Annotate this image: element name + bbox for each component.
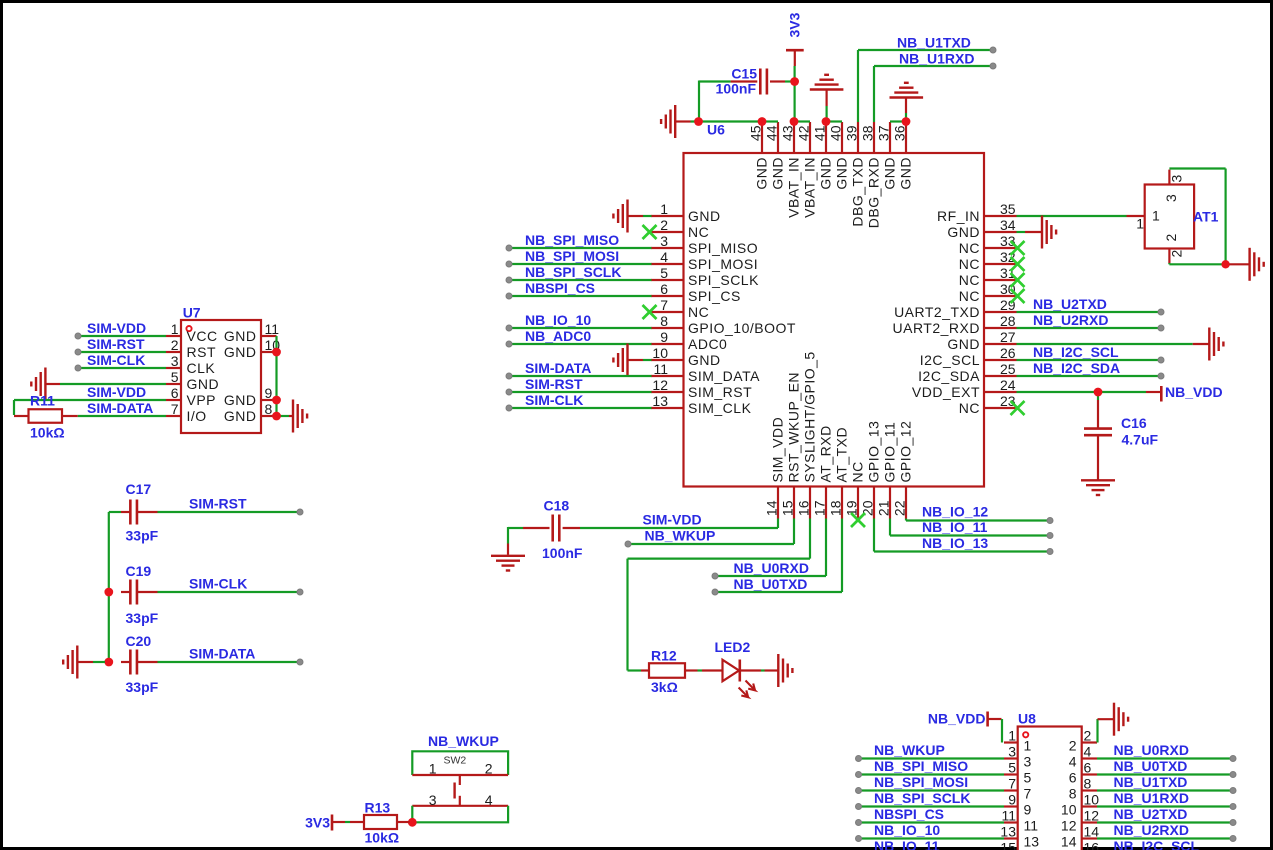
endpoint SIM-RST C17	[297, 509, 303, 515]
svg-text:VDD_EXT: VDD_EXT	[912, 384, 980, 400]
svg-text:GND: GND	[817, 157, 833, 190]
svg-text:NB_VDD: NB_VDD	[928, 711, 986, 727]
svg-text:7: 7	[1024, 786, 1032, 802]
svg-text:3: 3	[429, 792, 437, 808]
wire net NB_U1TXD	[858, 50, 993, 122]
svg-text:14: 14	[1084, 824, 1100, 840]
svg-text:1: 1	[1152, 208, 1160, 224]
value 100nF of C18	[542, 545, 583, 561]
wire ground to pin1	[643, 215, 652, 217]
wire net NB_WKUP to U6 pin15	[628, 519, 794, 545]
svg-text:4: 4	[660, 249, 668, 265]
svg-text:3: 3	[1169, 175, 1185, 183]
svg-text:NB_IO_12: NB_IO_12	[922, 504, 988, 520]
label R12	[651, 648, 677, 664]
svg-text:GND: GND	[224, 408, 257, 424]
svg-text:SIM-DATA: SIM-DATA	[87, 400, 153, 416]
wire U8 pin1 to NB_VDD	[1001, 719, 1003, 743]
svg-text:7: 7	[1008, 776, 1016, 792]
endpoint NB_U0TXD U8 right	[1230, 772, 1236, 778]
AT1 pin1 number outside	[1136, 216, 1144, 232]
endpoint SIM-RST U7	[75, 349, 81, 355]
wire net NB_SPI_MOSI to U8 pin 7	[859, 789, 1005, 791]
switch SW2 contacts	[412, 775, 508, 806]
svg-text:3V3: 3V3	[305, 815, 330, 831]
capacitor C18	[523, 515, 580, 542]
svg-text:R13: R13	[365, 800, 391, 816]
svg-text:R12: R12	[651, 648, 677, 664]
wire net NB_U0TXD to U8 pin 6	[1097, 773, 1233, 775]
endpoint NB_U2RXD	[1158, 325, 1164, 331]
endpoint NB_SPI_SCLK	[506, 277, 512, 283]
svg-text:1: 1	[1136, 216, 1144, 232]
wire R12 to LED2	[698, 669, 703, 671]
endpoint NB_IO_11	[1047, 533, 1053, 539]
svg-text:26: 26	[1000, 345, 1016, 361]
svg-text:NB_I2C_SCL: NB_I2C_SCL	[1114, 838, 1200, 850]
no-connect cross pin 2	[643, 225, 657, 239]
wire pin43 to pin42	[794, 120, 810, 122]
ground at U7 pin8	[289, 400, 307, 433]
wire ground to pin10	[643, 359, 652, 361]
wire net NB_WKUP to U8 pin 3	[859, 757, 1005, 759]
U6 left pin names	[688, 208, 796, 416]
svg-text:NC: NC	[959, 256, 980, 272]
endpoint NB_U1TXD	[990, 47, 996, 53]
svg-text:NB_U0RXD: NB_U0RXD	[1114, 742, 1189, 758]
svg-text:1: 1	[660, 201, 668, 217]
junction dot C19 bus	[104, 588, 113, 597]
label SIM-RST U7 pin2	[87, 336, 145, 352]
svg-text:NC: NC	[959, 272, 980, 288]
svg-text:9: 9	[265, 385, 273, 401]
wire net NB_SPI_SCLK to U8 pin 9	[859, 805, 1005, 807]
svg-text:SW2: SW2	[444, 755, 467, 767]
label NB_IO_10	[525, 312, 591, 328]
svg-text:SPI_MOSI: SPI_MOSI	[688, 256, 758, 272]
endpoint SIM-CLK C19	[297, 589, 303, 595]
svg-text:33: 33	[1000, 233, 1016, 249]
ground at U6 pin 1	[613, 200, 643, 233]
svg-text:GND: GND	[688, 352, 721, 368]
svg-text:3: 3	[1163, 194, 1179, 202]
svg-text:SIM-CLK: SIM-CLK	[189, 576, 247, 592]
svg-text:7: 7	[171, 401, 179, 417]
endpoint SIM-RST pin12	[506, 389, 512, 395]
ground below C18	[491, 556, 525, 571]
wire AT1 pin2 to ground	[1169, 263, 1229, 264]
svg-text:C20: C20	[126, 633, 152, 649]
label NB_SPI_MOSI U8	[874, 774, 968, 790]
svg-text:GND: GND	[769, 157, 785, 190]
svg-text:1: 1	[1024, 738, 1032, 754]
svg-text:NB_IO_10: NB_IO_10	[525, 312, 591, 328]
svg-text:41: 41	[812, 125, 828, 141]
label NB_U2TXD	[1033, 296, 1107, 312]
wire net NB_U2RXD	[1017, 327, 1162, 329]
svg-text:3: 3	[660, 233, 668, 249]
endpoint NB_SPI_SCLK U8	[856, 804, 862, 810]
port 3V3 at R13	[305, 815, 332, 831]
svg-text:3V3: 3V3	[787, 12, 803, 37]
svg-text:45: 45	[748, 125, 764, 141]
label R13	[365, 800, 391, 816]
U6 bottom pin names	[769, 351, 913, 482]
endpoint NB_U1RXD	[990, 63, 996, 69]
wire net NB_SPI_MISO to U8 pin 5	[859, 773, 1005, 775]
svg-text:GND: GND	[688, 208, 721, 224]
label SIM-VDD pin14	[643, 512, 702, 528]
svg-text:RST_WKUP_EN: RST_WKUP_EN	[785, 372, 801, 483]
label NB_WKUP pin15	[645, 528, 716, 544]
svg-text:6: 6	[660, 281, 668, 297]
svg-text:13: 13	[652, 393, 668, 409]
ground above pins 37/36	[890, 83, 924, 122]
svg-text:C16: C16	[1121, 415, 1147, 431]
svg-text:33pF: 33pF	[126, 610, 159, 626]
wire net NB_IO_13 to U6 pin20	[874, 519, 1050, 552]
label SIM-RST C17	[189, 496, 247, 512]
label NB_ADC0	[525, 328, 591, 344]
svg-text:NB_WKUP: NB_WKUP	[428, 733, 499, 749]
svg-text:AT_RXD: AT_RXD	[817, 425, 833, 482]
U6 right pin stubs 35-23	[984, 216, 1017, 408]
endpoint NB_U2RXD U8 right	[1230, 836, 1236, 842]
svg-text:20: 20	[860, 500, 876, 516]
label U8	[1018, 711, 1036, 727]
svg-text:GND: GND	[224, 344, 257, 360]
svg-text:100nF: 100nF	[542, 545, 583, 561]
svg-text:U6: U6	[707, 122, 725, 138]
svg-text:GPIO_12: GPIO_12	[897, 421, 913, 483]
wire net NBSPI_CS	[509, 295, 652, 297]
no-connect cross pin 23	[1011, 401, 1025, 415]
label C20	[126, 633, 152, 649]
svg-text:GPIO_13: GPIO_13	[865, 421, 881, 483]
svg-text:34: 34	[1000, 217, 1016, 233]
ground at AT1	[1229, 248, 1263, 281]
AT1 pin2 number outside	[1169, 250, 1185, 258]
svg-text:1: 1	[171, 321, 179, 337]
svg-text:33pF: 33pF	[126, 679, 159, 695]
resistor R11	[14, 409, 78, 423]
svg-text:11: 11	[265, 321, 280, 337]
wire RF_IN to AT1	[1017, 215, 1127, 217]
svg-text:RST: RST	[187, 344, 217, 360]
svg-text:NB_IO_11: NB_IO_11	[874, 838, 940, 850]
svg-text:15: 15	[780, 500, 796, 516]
wire LED2 to ground	[761, 669, 765, 671]
wire net NB_IO_10	[509, 327, 652, 329]
wire net NB_U0TXD to U6 pin18	[715, 519, 842, 593]
value 33pF of C17	[126, 528, 159, 544]
AT1 pin 3 stub	[1168, 170, 1170, 185]
svg-text:2: 2	[1069, 738, 1077, 754]
capacitor C15	[731, 69, 785, 95]
LED2 emission arrows	[739, 681, 755, 698]
AT1 pin 1 stub	[1127, 215, 1145, 217]
svg-text:NB_U1RXD: NB_U1RXD	[1114, 790, 1189, 806]
svg-text:SIM-VDD: SIM-VDD	[87, 384, 146, 400]
svg-text:42: 42	[796, 125, 812, 141]
wire U7 right GND bus	[277, 336, 290, 416]
wire net NB_I2C_SDA	[1017, 375, 1162, 377]
wire net SIM-CLK to pin 13	[509, 407, 652, 409]
svg-text:25: 25	[1000, 361, 1016, 377]
no-connect cross pin 19	[851, 513, 865, 527]
label NB_IO_11 U8	[874, 838, 940, 850]
svg-text:C15: C15	[731, 66, 757, 82]
svg-text:NB_I2C_SDA: NB_I2C_SDA	[1033, 360, 1120, 376]
label NBSPI_CS U8	[874, 806, 944, 822]
wire pin41 to pin40	[826, 120, 842, 122]
U8 left pin names inside	[1024, 738, 1040, 850]
svg-text:NB_WKUP: NB_WKUP	[874, 742, 945, 758]
label NBSPI_CS	[525, 280, 595, 296]
svg-text:U8: U8	[1018, 711, 1036, 727]
endpoint NB_SPI_MISO U8	[856, 772, 862, 778]
svg-text:VBAT_IN: VBAT_IN	[785, 157, 801, 218]
svg-text:2: 2	[171, 337, 179, 353]
wire U6 pin16 to R12	[628, 519, 811, 671]
svg-text:5: 5	[1024, 770, 1032, 786]
svg-text:SIM_DATA: SIM_DATA	[688, 368, 760, 384]
svg-text:I/O: I/O	[187, 408, 207, 424]
AT1 pin 2 stub	[1168, 249, 1170, 264]
svg-text:SYSLIGHT/GPIO_5: SYSLIGHT/GPIO_5	[801, 351, 817, 482]
svg-text:5: 5	[660, 265, 668, 281]
svg-text:4: 4	[485, 792, 493, 808]
svg-text:3: 3	[1024, 754, 1032, 770]
wire net NB_SPI_SCLK	[509, 279, 652, 281]
svg-text:36: 36	[892, 125, 908, 141]
wire net NB_ADC0	[509, 343, 652, 345]
endpoint NB_ADC0	[506, 341, 512, 347]
label NB_I2C_SCL U8 right	[1114, 838, 1200, 850]
U7 left pin names	[187, 328, 220, 424]
svg-text:NC: NC	[849, 461, 865, 482]
svg-text:CLK: CLK	[187, 360, 216, 376]
svg-text:SIM-RST: SIM-RST	[87, 336, 145, 352]
label NB_U1RXD	[899, 51, 974, 67]
no-connect cross pin 31	[1011, 273, 1025, 287]
wire net NB_VDD from VDD_EXT	[1017, 391, 1147, 393]
endpoint NB_IO_10 U8	[856, 836, 862, 842]
svg-text:8: 8	[660, 313, 668, 329]
svg-text:14: 14	[764, 500, 780, 516]
U6 bottom pin stubs 14-22	[778, 487, 906, 519]
svg-text:5: 5	[171, 369, 179, 385]
junction dots top bus	[694, 77, 910, 126]
svg-text:GND: GND	[187, 376, 220, 392]
svg-text:43: 43	[780, 125, 796, 141]
label C16	[1121, 415, 1147, 431]
svg-text:6: 6	[171, 385, 179, 401]
endpoint SIM-DATA C20	[297, 659, 303, 665]
wire U8 pin2 to ground	[1096, 719, 1098, 743]
AT1 pin3 name inside	[1163, 194, 1179, 202]
svg-text:NB_IO_10: NB_IO_10	[874, 822, 940, 838]
no-connect cross pin 33	[1011, 241, 1025, 255]
svg-text:44: 44	[764, 125, 780, 141]
label LED2	[715, 639, 751, 655]
svg-text:NC: NC	[959, 240, 980, 256]
label NB_SPI_SCLK	[525, 264, 621, 280]
wire net SIM-VDD to U7 pin1	[78, 335, 166, 337]
wire net SIM-RST to U7 pin2	[78, 351, 166, 353]
resistor R12	[641, 663, 698, 678]
U7 right pin stubs	[261, 336, 277, 416]
endpoint NB_SPI_MOSI	[506, 261, 512, 267]
wire pin37 to pin36	[890, 120, 906, 122]
wire AT1 pin3 loop	[1169, 169, 1225, 265]
U7 right pin numbers	[265, 321, 281, 417]
wire net NB_IO_11 to U6 pin21	[890, 519, 1050, 536]
endpoint NB_U0RXD	[712, 573, 718, 579]
svg-text:40: 40	[828, 125, 844, 141]
svg-text:12: 12	[1084, 808, 1100, 824]
antenna AT1 body	[1145, 185, 1194, 249]
endpoint NBSPI_CS U8	[856, 820, 862, 826]
svg-text:12: 12	[652, 377, 668, 393]
svg-text:11: 11	[653, 361, 668, 377]
svg-text:10: 10	[652, 345, 668, 361]
wire C18 to ground	[508, 527, 523, 555]
label NB_U2TXD U8 right	[1114, 806, 1188, 822]
endpoint NB_WKUP	[625, 541, 631, 547]
svg-text:12: 12	[1061, 818, 1077, 834]
svg-text:2: 2	[1084, 728, 1092, 744]
U6 top pin names	[753, 157, 913, 228]
capacitor C17	[121, 500, 158, 525]
svg-text:NB_U1RXD: NB_U1RXD	[899, 51, 974, 67]
U6 top pin stubs 45-36	[762, 122, 906, 153]
label NB_SPI_MOSI	[525, 248, 619, 264]
label NB_U1RXD U8 right	[1114, 790, 1189, 806]
U8 pin1 indicator circle	[1023, 732, 1028, 737]
svg-text:4: 4	[1069, 754, 1077, 770]
svg-text:SPI_CS: SPI_CS	[688, 288, 741, 304]
U8 left pin numbers outside	[1000, 728, 1016, 850]
svg-text:4: 4	[1084, 744, 1092, 760]
label SIM-RST pin12	[525, 376, 583, 392]
endpoint NB_IO_10	[506, 325, 512, 331]
endpoint NB_I2C_SCL	[1158, 357, 1164, 363]
svg-text:13: 13	[1000, 824, 1016, 840]
svg-text:9: 9	[1008, 792, 1016, 808]
svg-text:ADC0: ADC0	[688, 336, 727, 352]
endpoint NB_IO_13	[1047, 549, 1053, 555]
LED LED2	[702, 660, 761, 682]
svg-text:NB_VDD: NB_VDD	[1165, 384, 1223, 400]
label NB_I2C_SCL	[1033, 344, 1119, 360]
svg-text:GND: GND	[224, 328, 257, 344]
svg-text:GPIO_10/BOOT: GPIO_10/BOOT	[688, 320, 796, 336]
label NB_U0RXD pin17	[734, 560, 809, 576]
endpoint NB_U1RXD U8 right	[1230, 804, 1236, 810]
U8 right pin numbers outside	[1084, 728, 1100, 850]
svg-text:10: 10	[1084, 792, 1100, 808]
svg-text:C17: C17	[126, 481, 152, 497]
svg-text:LED2: LED2	[715, 639, 751, 655]
IC U6 NB-IoT module body	[684, 153, 985, 487]
label U7	[183, 305, 201, 321]
svg-text:AT_TXD: AT_TXD	[833, 427, 849, 483]
svg-text:SIM-VDD: SIM-VDD	[643, 512, 702, 528]
label NB_SPI_MISO U8	[874, 758, 968, 774]
svg-text:SPI_SCLK: SPI_SCLK	[688, 272, 759, 288]
svg-text:11: 11	[1024, 818, 1039, 834]
svg-text:3kΩ: 3kΩ	[651, 679, 678, 695]
svg-text:NB_U0TXD: NB_U0TXD	[1114, 758, 1188, 774]
port NB_VDD	[1146, 384, 1223, 402]
endpoint NB_U0TXD	[712, 589, 718, 595]
endpoint NB_SPI_MISO	[506, 245, 512, 251]
label NB_I2C_SDA	[1033, 360, 1120, 376]
wire pin27 to ground	[1017, 343, 1193, 345]
svg-text:R11: R11	[30, 393, 55, 409]
svg-text:NB_SPI_SCLK: NB_SPI_SCLK	[525, 264, 621, 280]
svg-text:8: 8	[1069, 786, 1077, 802]
svg-text:9: 9	[1024, 802, 1032, 818]
svg-text:SIM-VDD: SIM-VDD	[87, 320, 146, 336]
endpoint NB_I2C_SDA	[1158, 373, 1164, 379]
svg-text:NB_U1TXD: NB_U1TXD	[1114, 774, 1188, 790]
svg-text:22: 22	[892, 500, 908, 516]
svg-text:GND: GND	[897, 157, 913, 190]
wire net SIM-VDD to U7 pin6 and R11	[14, 400, 166, 415]
wire net SIM-RST at C17	[109, 511, 300, 513]
svg-text:100nF: 100nF	[716, 81, 757, 97]
svg-text:SIM_RST: SIM_RST	[688, 384, 752, 400]
ground at U6 pin 10	[613, 344, 643, 377]
svg-text:27: 27	[1000, 329, 1016, 345]
svg-text:SIM-DATA: SIM-DATA	[525, 360, 591, 376]
ground below C16	[1081, 480, 1115, 495]
label R11	[30, 393, 55, 409]
endpoint NBSPI_CS	[506, 293, 512, 299]
wire net SIM-CLK at C19	[158, 591, 301, 593]
svg-text:NB_ADC0: NB_ADC0	[525, 328, 591, 344]
svg-text:C18: C18	[544, 498, 570, 514]
svg-text:24: 24	[1000, 377, 1016, 393]
wire net SIM-DATA to U7 pin7	[78, 415, 166, 417]
svg-text:3: 3	[171, 353, 179, 369]
U6 bottom pin numbers 14-22	[764, 500, 908, 516]
svg-text:23: 23	[1000, 393, 1016, 409]
svg-text:17: 17	[812, 500, 828, 516]
svg-text:2: 2	[1169, 250, 1185, 258]
wire ground to C20 bus	[93, 661, 105, 663]
U6 top pin numbers 45-36	[748, 125, 908, 141]
svg-text:15: 15	[1000, 840, 1016, 850]
U8 left pin stubs	[1004, 743, 1018, 850]
svg-text:21: 21	[876, 500, 892, 516]
label NB_U0TXD U8 right	[1114, 758, 1188, 774]
svg-text:16: 16	[1084, 840, 1100, 850]
no-connect cross pin 30	[1011, 289, 1025, 303]
svg-text:35: 35	[1000, 201, 1016, 217]
svg-text:GND: GND	[224, 392, 257, 408]
junction dot R13/SW2	[408, 818, 417, 827]
value 33pF of C20	[126, 679, 159, 695]
svg-text:I2C_SCL: I2C_SCL	[920, 352, 980, 368]
svg-text:NB_I2C_SCL: NB_I2C_SCL	[1033, 344, 1119, 360]
svg-text:I2C_SDA: I2C_SDA	[918, 368, 980, 384]
svg-text:RF_IN: RF_IN	[937, 208, 980, 224]
U7 right pin names GND	[224, 328, 257, 424]
svg-text:NBSPI_CS: NBSPI_CS	[874, 806, 944, 822]
